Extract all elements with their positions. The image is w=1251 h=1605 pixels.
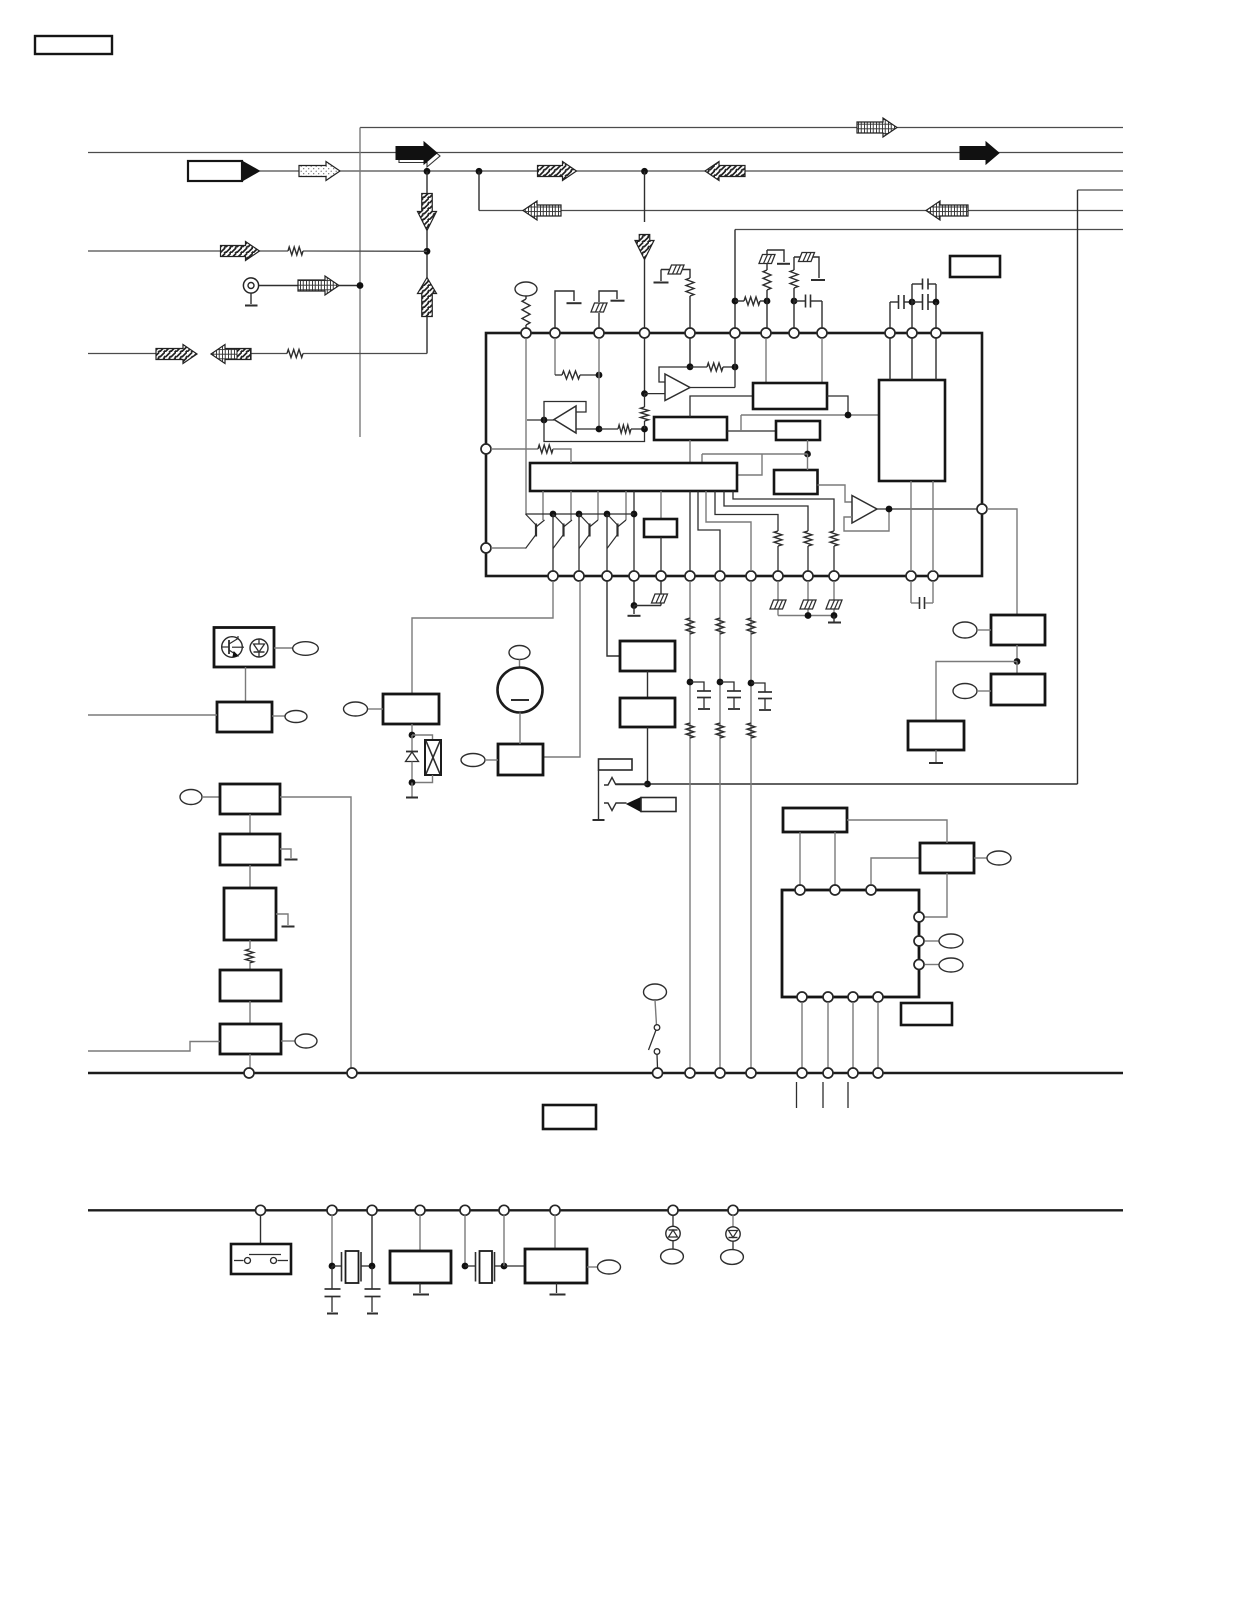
pin7 riser chain (766, 301, 768, 328)
block U1e wide (530,463) (530, 463, 737, 491)
U2 top pins (795, 885, 805, 895)
resistor on 690 upper (686, 618, 694, 634)
pad ellipse right of R5 (281, 1040, 295, 1042)
wire v741 (740, 415, 742, 431)
resistor above pin1 (525, 296, 527, 299)
ground under block (556, 1283, 558, 1293)
signal arrow black right on line2 (left) (399, 145, 440, 167)
wire R5 to bus (249, 1054, 251, 1068)
block U1f (879,380) tall (879, 380, 945, 481)
ground loop pin2 (555, 291, 574, 328)
diode D1 (411, 735, 413, 752)
wire v735 from line6 (734, 230, 736, 329)
signal arrow down (hatched) at 427 (418, 194, 437, 231)
A1 feedback loop (527, 419, 554, 421)
wire 634 rect to pin (633, 491, 635, 571)
node dot line3/v479 (476, 168, 483, 175)
pad ellipse left of block (344, 702, 368, 716)
IC left pins (481, 444, 491, 454)
wire pin4 down inside (644, 338, 646, 394)
resistor 735-767 (735, 300, 744, 302)
wire elbow 762 (737, 454, 762, 475)
wire pin2..pin3 inside (598, 338, 600, 429)
block (991,615) (991, 615, 1045, 645)
power bus (88, 1072, 1123, 1075)
LED2 (732, 1215, 734, 1227)
pin8 riser chain (793, 301, 795, 328)
wire to 936 (936, 662, 1017, 722)
node dot pin7 301 (764, 298, 771, 305)
power switch (644, 984, 667, 1000)
wire R4-R5 (249, 1001, 251, 1024)
transistor collector feeds (542, 491, 544, 520)
hatch chip on pin3 riser (598, 313, 600, 328)
crystal X1 network (331, 1215, 333, 1266)
IC top pins (521, 328, 531, 338)
bus terminals (244, 1068, 254, 1078)
node dot 751/682 (748, 680, 755, 687)
U2 bottom wires to bus (801, 1002, 803, 1068)
node dot 690/682 (687, 679, 694, 686)
wire pin12 down inside (935, 338, 937, 380)
wire pin2 down inside + resistor to 599 (554, 338, 556, 375)
block R4 (220,970) (220, 970, 281, 1001)
wire to jack line (647, 727, 649, 784)
wire R1-R2 (249, 814, 251, 834)
cap between 911,933 (910, 581, 912, 603)
wire y=454 (702, 453, 808, 455)
wire pin7 down inside (765, 338, 767, 383)
wire arrow to v360 (339, 285, 360, 287)
capacitor pin10-pin11 (889, 302, 891, 328)
wire bus line 3 (260, 170, 1124, 172)
block (217,702) (217, 702, 272, 732)
cap to ground under 372 (371, 1266, 373, 1289)
motor circle (509, 646, 530, 660)
wire pin751 long (750, 581, 752, 1068)
staircase wires to bottom pins (689, 491, 691, 571)
U2 bottom pins (797, 992, 807, 1002)
rail terminals (256, 1205, 266, 1215)
node dot 634/514 (631, 511, 638, 518)
input wire into R5 (88, 1042, 220, 1052)
wire bus line 2 (88, 152, 1123, 154)
wire U1c bottom (807, 440, 809, 454)
crystal X2 network (464, 1215, 466, 1266)
signal arrow checked right on line1 (857, 118, 897, 137)
resistor on y=353 (287, 350, 303, 358)
node dot 599/429 (596, 426, 603, 433)
wire block-block (647, 671, 649, 698)
cap to ground under 332 (331, 1266, 333, 1289)
wire 947 to U2 right pin (925, 873, 948, 917)
wire pin553 below (412, 581, 553, 694)
pad ellipse 965 (925, 964, 939, 966)
jack ground (250, 293, 252, 304)
block U1d (774,470) (774, 470, 818, 494)
wire pin5 down inside (689, 338, 691, 367)
block U1a (654,417) (654, 417, 727, 440)
wire bus line 4 (1078, 189, 1124, 191)
op-amp A1 (left pointing) (554, 406, 576, 433)
label box (top-left) (35, 36, 112, 54)
block R2 (220,834) (220, 834, 280, 865)
node dot pin6 301 (732, 298, 739, 305)
wire right pin to column (987, 509, 1017, 615)
hatch chips + ground pins 778-834 (777, 581, 779, 616)
node dot 720/682 (717, 679, 724, 686)
wire pin6 down inside (734, 338, 736, 367)
ground below 412 (411, 783, 413, 797)
wire R1 right to bus (280, 797, 351, 1068)
block (498,744) (498, 744, 543, 775)
node dot 645/429 (641, 426, 648, 433)
wire bus line 5 (479, 210, 1123, 212)
wire U1a bottom (689, 440, 691, 463)
decoupling cap 751 (751, 683, 765, 692)
block R3 (224,888) (224, 888, 276, 940)
wire pin720 long (719, 581, 721, 1068)
connector stubs below bus (796, 1082, 798, 1108)
capacitor upper pin11-pin12 (911, 284, 913, 302)
IC U2 body (782, 890, 919, 997)
photo-coupler box (214,627) (214, 628, 274, 668)
resistor 690-735 (690, 366, 707, 368)
resistor R3-R4 (249, 940, 251, 949)
capacitor pin8-pin9 (794, 300, 805, 302)
node dot 412/735 (409, 732, 416, 739)
signal arrow checked left on line5 (left) (523, 201, 561, 220)
block (390,1251) (419, 1215, 421, 1251)
wire vertical right frame (1077, 190, 1079, 784)
wire 847-947 (847, 820, 947, 843)
node dot 645/394 (641, 390, 648, 397)
wire y=396 into U1a (690, 396, 753, 417)
signal arrow down (hatched) at 645 (635, 235, 654, 260)
A3 output wire (877, 508, 977, 510)
wire pin1 down inside (525, 338, 527, 514)
wire + dot 1017/662 (1016, 645, 1018, 662)
resistor above pin5 (689, 296, 691, 328)
node dot line3/v645 (641, 168, 648, 175)
R2 ground right (280, 849, 291, 858)
pad ellipse right (974, 857, 987, 859)
A2 input wire (645, 393, 666, 395)
block (991,674) (1016, 662, 1018, 675)
signal arrow black right on line2 (right) (960, 142, 999, 164)
resistor on 751 upper (747, 618, 755, 634)
decoupling cap 690 (690, 682, 704, 691)
left pin 548 wire (491, 547, 526, 549)
hatch chip on pin5 wire (668, 265, 684, 274)
node dot 690/367 (687, 363, 694, 370)
RCA jack (243, 278, 258, 293)
resistor on y=251 (288, 247, 303, 255)
node dot pin8 301 (791, 298, 798, 305)
pad ellipse pin1 (515, 282, 537, 296)
wire 504 down (503, 1215, 505, 1266)
pad ellipse left (461, 754, 485, 767)
wire pin607 below (607, 581, 620, 656)
A2 output wire (690, 387, 735, 389)
resistor on 751 lower (747, 723, 755, 738)
block (783,808) (783, 808, 847, 832)
wire pin690 long (689, 581, 691, 1068)
bottom rail (88, 1209, 1123, 1211)
wire U1d top (807, 454, 809, 470)
block (383,694) (383, 694, 439, 724)
wire 372 down (371, 1215, 373, 1266)
A1 lower loop (544, 420, 645, 442)
U2 wire 871 up (871, 858, 920, 885)
signal arrow checked left on line5 (right) (926, 201, 968, 220)
diode inside circle (250, 639, 268, 657)
wire v427 low (426, 317, 428, 354)
resistor 599-645 (599, 428, 618, 430)
wire horizontal jack return (616, 783, 1078, 785)
node dot pin12 302 (933, 299, 940, 306)
node dot 647/784 (644, 781, 651, 788)
node dot 808/454 (804, 451, 811, 458)
input wire y=715 (88, 714, 217, 716)
node dot 848/415 (845, 412, 852, 419)
pad ellipse (953, 684, 977, 699)
LED1 (672, 1215, 674, 1227)
wire coupler down (245, 667, 247, 702)
block U1c (776,421) (776, 421, 820, 440)
op-amp A2 (right pointing) (665, 374, 690, 401)
wire U1d right to A3 (818, 485, 853, 502)
label box (543,1105) (543, 1105, 596, 1129)
left pin 449 wire + resistor (491, 448, 538, 450)
node dot v360/285 (357, 282, 364, 289)
reset switch box (260, 1215, 262, 1244)
ground under block (419, 1283, 421, 1293)
wire U1b right elbow (827, 396, 848, 415)
block (620,698) (620, 698, 675, 727)
node dot 599/375 (596, 372, 603, 379)
wire U1f bottom verticals (910, 481, 912, 571)
signal arrow hatched left on line3 (705, 162, 745, 181)
node dot 427/251 (424, 248, 431, 255)
pad ellipse 941 (925, 940, 939, 942)
A1 output wire (576, 428, 599, 430)
wire to dot 412/735 (411, 724, 413, 735)
wires to U2 top (799, 832, 801, 885)
signal arrow dotted right on line3 (299, 162, 340, 181)
resistor on 690 lower (686, 723, 694, 738)
wire v645 upper (644, 171, 646, 222)
decoupling cap 720 (720, 682, 734, 691)
label box right of caps (950, 256, 1000, 277)
wire v645 lower (644, 260, 646, 329)
crystal/fuse X-box (412, 735, 433, 740)
wire pin579 below (543, 581, 580, 757)
block (525,1249) (554, 1215, 556, 1249)
resistor on 720 upper (716, 618, 724, 634)
wire pin10 down inside (889, 338, 891, 380)
ground chain pin634 (633, 581, 635, 606)
node dot pin11 302 (909, 299, 916, 306)
node dot 735/367 (732, 364, 739, 371)
wire pin9 down inside (821, 338, 823, 383)
wire v427 mid (426, 231, 428, 279)
IC U1 body (486, 333, 982, 576)
wire y=415 to U1f (741, 414, 879, 416)
wire pin661 to 634 node (634, 605, 661, 607)
node dot 412/783 (409, 779, 416, 786)
signal arrow hatched right on y=353 (156, 345, 197, 364)
R3 ground right (276, 914, 288, 925)
A2 feedback (659, 367, 690, 382)
label box (901,1003) (901, 1003, 952, 1025)
pad ellipse right (272, 715, 285, 717)
pad ellipse right (587, 1266, 598, 1268)
wire jack to arrow (259, 285, 299, 287)
wire v427 upper (426, 171, 428, 193)
transistors Q1-Q4 (535, 524, 537, 537)
wire R2-R3 (249, 865, 251, 888)
signal arrow checked left on y=353 (211, 345, 251, 364)
IC bottom pins (548, 571, 558, 581)
plug arrow (627, 798, 641, 812)
pad ellipse right of coupler (274, 647, 293, 649)
headphone jack symbol (599, 759, 633, 770)
pad ellipse (191,797) (180, 790, 202, 805)
node dot line3/v427 (424, 168, 431, 175)
block R5 (220,1024) (220, 1024, 281, 1054)
transistor inside circle (222, 637, 243, 658)
wire pin11 down inside (911, 338, 913, 380)
A3 feedback (844, 509, 889, 531)
signal arrow checked right on y=285 (298, 276, 339, 295)
ground below (935, 750, 937, 762)
node dot 889/509 (886, 506, 893, 513)
block U1g small (644,519) (660, 491, 662, 519)
wire bus line 1 (360, 127, 1123, 129)
ground pin5 (660, 270, 662, 282)
block R1 (220,784) (220, 784, 280, 814)
IC right pin (977, 504, 987, 514)
block U1b (753,383) (753, 383, 827, 409)
op-amp A3 (right pointing) (852, 496, 877, 524)
signal arrow hatched right on line3 (538, 162, 577, 181)
wire U1a right to U1c (727, 430, 776, 432)
transistor base rail y=514 (526, 513, 635, 515)
wire vertical main left (359, 128, 361, 438)
pad ellipse (953, 622, 977, 638)
block (908,721) (908, 721, 964, 750)
U2 right pins (914, 912, 924, 922)
resistor on 720 lower (716, 723, 724, 738)
wire line y=251 (88, 250, 221, 252)
wire line y=353.5 (88, 353, 157, 355)
resistor 645 vertical (644, 394, 646, 407)
block (920,843) (920, 843, 974, 873)
wire bus line 6 (735, 229, 1123, 231)
capacitor pin11-pin12 (922, 294, 924, 310)
signal arrow hatched right on y=251 (221, 242, 260, 261)
hatch chip on 661 (652, 594, 668, 603)
wire v479 (478, 171, 480, 210)
signal arrow up (hatched) at 427 (418, 278, 437, 317)
block (620,641) (620, 641, 675, 671)
connector box with pointer (input) (188, 161, 242, 181)
